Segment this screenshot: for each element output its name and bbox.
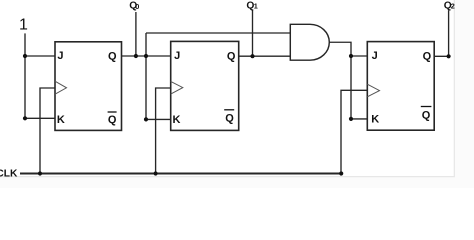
svg-text:Q: Q xyxy=(108,50,117,62)
svg-text:K: K xyxy=(173,114,181,126)
svg-text:K: K xyxy=(371,114,379,126)
svg-text:CLK: CLK xyxy=(0,169,18,180)
svg-text:K: K xyxy=(57,114,65,126)
svg-text:0: 0 xyxy=(135,2,139,11)
svg-text:1: 1 xyxy=(19,17,28,34)
svg-text:1: 1 xyxy=(254,1,258,10)
svg-text:2: 2 xyxy=(451,2,455,11)
svg-text:Q: Q xyxy=(423,50,432,62)
svg-text:J: J xyxy=(57,50,63,62)
svg-text:Q: Q xyxy=(227,50,236,62)
svg-text:J: J xyxy=(372,50,378,62)
svg-text:Q: Q xyxy=(108,114,117,126)
svg-text:Q: Q xyxy=(225,113,234,125)
svg-text:Q: Q xyxy=(422,109,431,121)
svg-text:J: J xyxy=(174,50,180,62)
